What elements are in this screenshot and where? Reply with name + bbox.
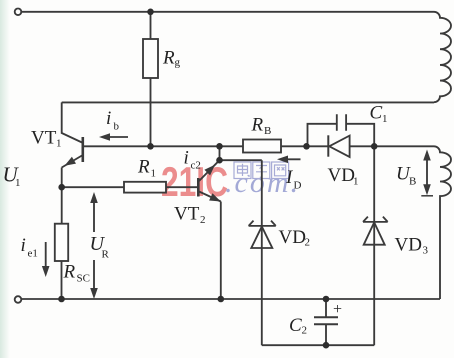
zener VD2 triangle [251,227,272,249]
wire node A to R1 [62,186,124,188]
transistor VT2 [198,160,221,201]
wire VT1 collector lead [62,102,82,142]
resistor Rg lead top [150,12,152,39]
wire top rail [22,11,435,13]
label C1 [370,103,388,126]
svg-text:e1: e1 [28,248,38,260]
node dot1 base rail [216,143,223,150]
svg-text:R: R [162,48,175,69]
node C2 loop bottom [323,342,330,349]
svg-text:VD: VD [395,235,422,256]
svg-text:R: R [102,249,110,261]
label UR [90,233,110,261]
svg-text:VT: VT [31,128,57,149]
node top rail / Rg [147,9,154,16]
wire C2 loop bottom [262,344,374,346]
terminal input bottom [15,296,22,303]
inductor L2 secondary winding [434,146,451,299]
watermark 21IC [161,158,228,206]
zener VD2 cathode bar [249,221,276,226]
svg-text:1: 1 [151,168,157,180]
label VD2 [279,227,311,249]
svg-text:VD: VD [328,165,355,186]
svg-text:D: D [294,180,302,192]
svg-text:c2: c2 [191,160,201,172]
node bottom rail RSC [58,296,65,303]
capacitor C2 top lead [325,299,327,317]
svg-text:SC: SC [77,273,90,285]
watermark 电子网 boxes [234,162,289,179]
node bottom rail VT2 emitter [218,296,225,303]
arrow ib [99,133,128,141]
wire VT1 emitter lead [61,168,63,224]
watermark .com [225,166,300,200]
arrow ID [277,156,301,164]
node dot2 VT2 collector [216,157,223,164]
wire VD1 to coil [350,145,434,147]
wire VD3 branch vertical [373,146,375,345]
node VD1 right / C1 / VD3 [371,143,378,150]
label ie1 [21,235,38,260]
node RB right / VD1 / C1 [303,143,310,150]
wire dot1 to dot2 [219,146,221,160]
label ID [285,167,302,192]
svg-text:C: C [289,315,302,336]
wire dot2 to VD2 [220,159,262,161]
svg-text:2: 2 [200,214,206,226]
wire bottom rail [22,298,441,300]
svg-text:1: 1 [15,177,21,189]
label VD1 [328,165,359,188]
svg-text:B: B [409,176,416,188]
label VT1 [31,128,62,150]
label VT2 [174,204,206,227]
zener VD3 triangle [364,222,385,244]
arrow ie1 [42,242,50,277]
label C2 [289,315,307,337]
capacitor C1 left lead [308,124,337,147]
resistor RSC [55,224,68,261]
svg-text:2: 2 [305,237,311,249]
arrow UB double [421,150,433,196]
svg-text:+: + [333,301,342,318]
wire collector rail [62,101,434,103]
resistor R1 [124,182,166,193]
diode VD1 [328,135,349,157]
capacitor C2 plates [314,317,338,324]
wire VD2 branch vertical [261,160,263,345]
resistor RB [243,140,281,153]
wire R1 to VT2 base [166,186,197,188]
label U1 [3,163,21,190]
node bottom rail C2 [323,296,330,303]
label R1 [137,157,156,180]
capacitor C1 right lead [346,124,374,147]
label VD3 [395,235,429,257]
svg-text:1: 1 [382,113,388,125]
resistor RSC lead bottom [61,261,63,299]
node VT1 emitter junction [58,184,65,191]
wire VT2 emitter lead [220,202,222,300]
svg-text:B: B [264,125,271,137]
wire VT1 base rail [84,145,243,147]
inductor L1 primary winding [434,12,451,102]
label ic2 [184,148,201,172]
svg-text:R: R [251,115,264,136]
svg-text:g: g [175,57,181,69]
label RB [251,115,272,138]
label ib [106,108,120,133]
resistor Rg lead bottom [150,78,152,146]
zener VD3 cathode bar [363,217,388,222]
svg-text:i: i [184,148,189,169]
svg-text:2: 2 [302,325,308,337]
svg-text:R: R [63,262,76,283]
svg-text:C: C [370,103,383,124]
resistor Rg [143,39,158,78]
wire RB to VD1 [281,145,328,147]
svg-text:b: b [114,121,120,133]
capacitor C2 bottom lead [325,324,327,345]
terminal input top [15,9,22,16]
svg-text:3: 3 [423,245,429,257]
svg-text:i: i [106,108,111,129]
transistor VT1 [62,137,83,168]
svg-text:R: R [137,157,150,178]
label RSC [63,262,90,285]
svg-text:1: 1 [56,138,62,150]
arrow ic2 on VT2 collector [204,165,215,176]
svg-text:i: i [21,235,26,256]
svg-text:VD: VD [279,227,306,248]
node base rail / Rg [147,143,154,150]
svg-text:1: 1 [353,176,359,188]
label UB [396,164,416,188]
capacitor C1 plates [337,114,346,131]
label Rg [162,48,181,69]
svg-text:VT: VT [174,204,200,225]
arrow UR double [90,192,98,299]
